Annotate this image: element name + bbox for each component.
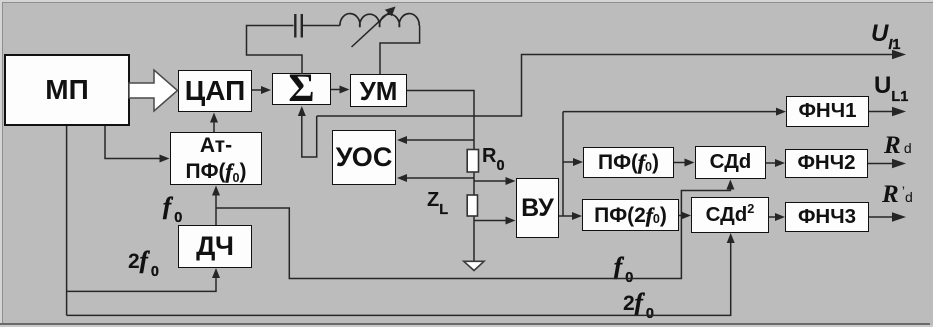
block ПФ(f0) — [583, 147, 674, 178]
block МП — [4, 54, 130, 126]
wire ЦАП to Σ with arrow — [252, 89, 263, 91]
label U_I1 — [871, 22, 900, 49]
wire node below ZL to ВУ input 2 — [474, 220, 507, 222]
summer Σ — [272, 73, 331, 105]
wire СДd2 to ФНЧ3 — [769, 216, 777, 218]
wire U_I1 sense line — [317, 55, 896, 117]
branch into ФНЧ1 — [563, 111, 777, 113]
wire ВУ output to ПФ(2f0) — [559, 215, 574, 217]
capacitor plates — [295, 14, 302, 38]
output arrow R_d — [868, 163, 895, 165]
resistor R0 — [467, 150, 478, 173]
block УОС — [332, 130, 396, 185]
block УМ — [350, 74, 407, 107]
block Ат-ПФ(f0) — [170, 132, 262, 185]
block ФНЧ2 — [785, 149, 868, 178]
wire МП to Ат-ПФ input — [105, 126, 161, 159]
block СДd — [695, 146, 766, 179]
label 2f0 bottom — [623, 291, 654, 318]
label f0 at ДЧ — [163, 195, 182, 222]
wire МП 2f0 bus down — [66, 126, 68, 315]
variable inductor — [340, 14, 419, 28]
wire node R0/ZL to ВУ input 1 — [474, 180, 507, 182]
inductor adjustment arrow — [352, 11, 392, 48]
wire Ат-ПФ to ЦАП — [213, 121, 215, 132]
output arrow U_L1 — [869, 111, 895, 113]
block ПФ(2f0) — [582, 199, 679, 231]
block ДЧ — [178, 225, 252, 268]
feedback staircase into Σ bottom — [302, 114, 317, 157]
label U_L1 — [874, 74, 908, 101]
impedance ZL element — [467, 195, 477, 216]
output arrow R_d2 — [869, 216, 895, 218]
wire УМ output to R0/ZL chain — [407, 91, 474, 262]
label 2f0 at ДЧ — [128, 249, 159, 276]
label R_d prime — [882, 182, 913, 207]
wire Σ top to capacitor loop — [247, 26, 303, 75]
block ФНЧ1 — [786, 96, 869, 127]
output arrow U_I1 — [892, 50, 906, 60]
block ВУ — [516, 178, 559, 238]
wire branch to ДЧ bottom input — [67, 277, 216, 291]
label f0 bottom — [614, 255, 633, 282]
block ФНЧ3 — [785, 202, 869, 232]
ground — [464, 261, 484, 270]
block ЦАП — [178, 70, 252, 112]
wire f0 net to СДd — [216, 188, 730, 279]
wire ДЧ to Ат-ПФ — [215, 194, 217, 225]
wire node R0/ZL to УОС input 2 — [406, 177, 474, 179]
wire inductor to УМ top — [380, 26, 420, 75]
wire 2f0 bottom bus to СДd2 — [67, 242, 731, 315]
wire ПФ(2f0) to СДd2 — [679, 215, 683, 217]
wire junction up to ПФ(f0) and ФНЧ1 — [562, 112, 564, 216]
wire ПФ(f0) to СДd — [674, 162, 686, 164]
label R_d — [884, 133, 912, 158]
wire Σ to УМ with arrow — [331, 89, 341, 91]
wire СДd to ФНЧ2 — [766, 162, 777, 164]
label R0 — [482, 146, 505, 170]
block arrow МП to ЦАП — [129, 70, 178, 111]
branch into ПФ(f0) — [563, 161, 575, 163]
wire capacitor to inductor — [303, 25, 340, 27]
block СДd2 — [691, 197, 769, 233]
wire node above R0 to УОС input 1 — [406, 139, 474, 141]
label ZL — [427, 190, 448, 214]
